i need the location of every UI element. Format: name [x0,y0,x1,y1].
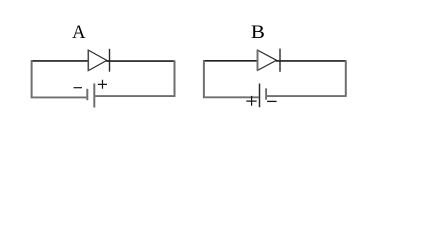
minus sign of battery B [267,100,277,102]
wire: loop B bottom-right horizontal [267,95,347,97]
wire: loop B right vertical [345,60,347,96]
wire: loop A top-right horizontal (apex to right corner) [106,60,175,62]
battery BT_A positive long plate [93,83,95,107]
svg-text:A: A [72,23,86,43]
diode D_B triangle left edge [257,50,259,71]
wire: loop A right vertical [174,61,176,97]
wire: loop B bottom-left horizontal [203,96,259,98]
wire: loop B top-right horizontal (apex to right corner) [276,60,346,62]
plus sign of battery A [98,80,107,89]
diode D_A triangle left edge [87,50,89,71]
plus sign of battery B [246,96,256,106]
wire: loop B left vertical [203,60,205,98]
battery BT_B negative short plate [265,88,267,99]
wire: loop B top-left horizontal [203,60,257,62]
diode D_B triangle (anode) [258,50,277,70]
minus sign of battery A [74,87,83,89]
wire: loop A left vertical [31,60,33,98]
battery BT_B positive long plate [259,84,261,108]
diode D_A cathode bar [109,49,111,72]
diode D_B cathode bar [279,49,281,72]
wire: loop A top-left horizontal [31,60,88,62]
diode D_A triangle (anode) [88,50,107,71]
wire: loop A bottom-left horizontal [31,96,87,98]
battery BT_A negative short plate [86,89,88,100]
svg-text:B: B [251,23,265,43]
wire: loop A bottom-right horizontal [95,95,175,97]
